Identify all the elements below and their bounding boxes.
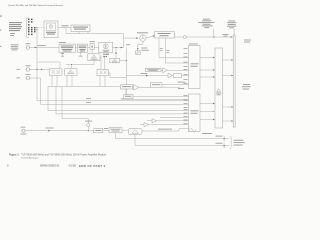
- wires PA stage outputs to bus: [52, 76, 105, 87]
- wires PA stage feeds: [101, 56, 105, 69]
- predriver box: [77, 44, 88, 52]
- interconnect board connector lower: [189, 94, 201, 132]
- label on output line: [223, 33, 229, 36]
- wire predriver to attenuator: [88, 47, 90, 49]
- svg-text:68P81095E05-B: 68P81095E05-B: [40, 164, 59, 168]
- brace DC input group: [230, 136, 232, 148]
- arrow into antenna feed: [231, 36, 233, 38]
- wire regulator to connector: [142, 129, 189, 131]
- wires control box to connector: [162, 84, 189, 87]
- wire upper PA feed: [37, 62, 60, 68]
- wire antenna label leader: [233, 29, 235, 35]
- backplane board box: [215, 48, 223, 128]
- wire hybrid B to rail: [120, 60, 127, 62]
- pin labels left of connector P1: [184, 48, 188, 84]
- wires backplane to station (arrows): [223, 59, 234, 121]
- op-amp line buffer A: [152, 119, 157, 123]
- attenuator pad: [90, 41, 96, 49]
- svg-text:TLF-5930 (800 MHz) and TLF-594: TLF-5930 (800 MHz) and TLF-5940 (900 MHz…: [21, 153, 106, 156]
- wire to regulator: [122, 129, 129, 131]
- circulator: [137, 32, 148, 41]
- antenna output text block: [227, 21, 236, 29]
- driver amplifier box: [59, 42, 75, 52]
- wire J102 to PA stage: [30, 68, 50, 70]
- resistor dummy load R1 (hatched): [136, 51, 141, 55]
- DC input text block: [234, 140, 245, 146]
- pins below intermediate amp: [103, 54, 108, 58]
- wire aux line: [121, 98, 189, 101]
- connector J101 bracket: [27, 18, 30, 38]
- fuse F100: [85, 121, 92, 127]
- node junction on output line: [213, 36, 214, 37]
- wire J102 branch down to bus: [37, 100, 189, 102]
- wire driver to predriver: [75, 47, 77, 49]
- wire branch into circulator: [124, 37, 138, 39]
- power switch box: [109, 128, 122, 133]
- wires connector to backplane (arrows): [200, 57, 215, 120]
- wire lower harness: [66, 63, 94, 65]
- connector J101 pin-label text block: [9, 22, 22, 36]
- wire fuse to supply line: [87, 127, 89, 131]
- wire left control rail: [36, 30, 38, 101]
- reference regulator box: [124, 95, 134, 99]
- feed-through capacitor C1: [223, 136, 225, 142]
- wire interface board stubs: [79, 32, 88, 34]
- wire A+ supply feed-through: [116, 133, 230, 139]
- wire hybrid A output down: [93, 60, 95, 64]
- RF input text block: [11, 44, 19, 50]
- wire filter to antenna line: [175, 36, 233, 38]
- connector J102 9.6V input: [17, 65, 31, 71]
- wire into first hybrid: [91, 49, 93, 53]
- wire isolator to interface board: [58, 27, 71, 29]
- svg-text:Figure 2.: Figure 2.: [9, 153, 20, 156]
- small detector circle on line: [183, 35, 186, 38]
- label below lower connector: [202, 132, 212, 135]
- final PA stage Q1 (hybrid): [49, 68, 62, 75]
- connector J104 DC input: [21, 127, 27, 135]
- label box detector: [174, 74, 182, 78]
- final PA stage Q2 (hybrid): [64, 68, 77, 75]
- wire to hybrid B: [115, 48, 117, 59]
- svg-text:END OF PART 3: END OF PART 3: [79, 164, 106, 168]
- op-amp temperature buffer: [163, 68, 168, 73]
- op-amp control U10: [134, 85, 140, 91]
- interface board box: [71, 25, 90, 32]
- wire CS2 bottom notch: [189, 128, 197, 132]
- wire to switch box: [103, 130, 109, 132]
- harmonic filter text block: [198, 19, 214, 28]
- label to station text block: [242, 84, 251, 89]
- connector J100 RF input: [26, 43, 31, 49]
- wire bus drop 1: [48, 87, 189, 111]
- label load: [141, 47, 147, 50]
- wire control line to circulator: [66, 28, 124, 48]
- isolator assembly box: [44, 21, 58, 38]
- interconnect board connector upper: [189, 44, 201, 89]
- connector J103: [17, 74, 31, 80]
- pin labels left of connector P2: [184, 95, 188, 124]
- wire ground return feed-through: [135, 134, 229, 145]
- label at antenna feed: [244, 39, 251, 42]
- hybrid driver stage A (hatched): [88, 54, 100, 61]
- stub below driver: [62, 52, 64, 55]
- wire filter sample lines down: [159, 38, 189, 58]
- wire forward power detect: [126, 75, 168, 77]
- wire J100 to driver: [30, 47, 59, 49]
- hybrid driver stage B (hatched): [110, 58, 120, 63]
- wire (dashed) J101 to isolator: [38, 27, 44, 29]
- final PA stage Q3 (hybrid): [97, 69, 108, 75]
- wire PA output bus: [48, 86, 121, 88]
- wire DC supply line: [25, 130, 94, 132]
- control board V+ label box: [121, 85, 133, 89]
- wire bus drop 2: [56, 87, 189, 114]
- wire bus drop 3 to fuse: [62, 87, 88, 124]
- wire J103 down to bus: [30, 78, 189, 104]
- wire temp sense to connector: [161, 69, 189, 71]
- svg-text:4/1/98: 4/1/98: [69, 164, 77, 168]
- wire ref loop: [126, 89, 189, 97]
- op-amp detector buffer: [168, 73, 173, 78]
- 9.6V regulator box: [129, 129, 143, 135]
- intermediate amplifier box: [99, 42, 113, 52]
- label A+ sense lines: [86, 97, 91, 100]
- antenna feed line (coax): [233, 35, 235, 127]
- stub below predriver: [80, 52, 82, 55]
- wire circulator output: [146, 36, 154, 38]
- wire feedback rail: [125, 47, 127, 96]
- svg-text:Quantar 800 MHz and 900 MHz St: Quantar 800 MHz and 900 MHz Stations Fun…: [8, 4, 63, 7]
- low pass filter box: [155, 32, 175, 38]
- control detect box: [151, 83, 163, 88]
- connector J101 pins: [28, 19, 36, 35]
- feed-through capacitor C2: [223, 143, 225, 149]
- wire circulator to load: [138, 41, 143, 49]
- temperature sensor box: [146, 68, 162, 71]
- wire intermediate amp output: [113, 47, 124, 49]
- wire attenuator to intermediate amp: [94, 47, 99, 49]
- label W101: [62, 24, 69, 27]
- wire op-amp to box: [133, 86, 151, 88]
- page edge specks: [0, 16, 2, 17]
- op-amp line buffer B: [144, 122, 149, 126]
- wire harmonic filter label leader: [213, 29, 215, 37]
- supply filter label box: [94, 129, 103, 133]
- node junction dots at J101: [36, 27, 37, 28]
- wire final stage sense: [108, 73, 126, 78]
- wires into connector with amps: [160, 116, 189, 118]
